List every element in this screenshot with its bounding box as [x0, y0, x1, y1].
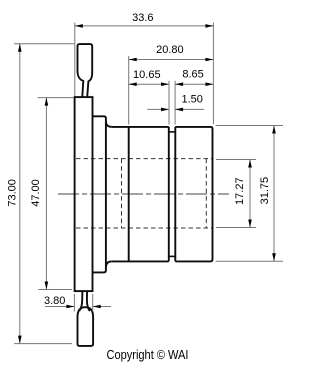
dim 3.80 right leader — [93, 306, 111, 308]
dim 10.65 right arrow — [161, 82, 169, 86]
dim 1.50 left leader — [147, 108, 169, 110]
dim 3.80 left leader — [45, 306, 74, 308]
svg-text:33.6: 33.6 — [132, 12, 153, 24]
flange outline — [93, 116, 106, 272]
extension line 17.27 bottom — [216, 227, 256, 229]
dim 1.50 left arrow — [161, 108, 169, 112]
groove left wall — [168, 127, 170, 262]
svg-text:47.00: 47.00 — [30, 179, 42, 207]
bottom blade paddle — [78, 307, 94, 346]
svg-text:8.65: 8.65 — [182, 69, 203, 81]
extension line 3.80 left — [73, 294, 75, 312]
hidden bore line top — [76, 158, 212, 160]
extension line groove left — [168, 81, 170, 125]
svg-text:Copyright © WAI: Copyright © WAI — [107, 347, 189, 362]
hidden bore line bottom — [76, 227, 212, 229]
dim 8.65 left arrow — [175, 82, 183, 86]
dim 20.80 left arrow — [129, 58, 137, 62]
hidden bore left vertical — [121, 159, 123, 228]
dim 73.00 top arrow — [18, 44, 22, 52]
svg-text:20.80: 20.80 — [156, 44, 184, 56]
dim 47.00 line — [45, 98, 47, 290]
hidden bore right vertical — [205, 159, 207, 228]
dim 73.00 bottom arrow — [18, 336, 22, 344]
dim 33.6 right arrow — [205, 24, 213, 28]
dim 8.65 line — [175, 83, 213, 85]
extension line body right — [212, 23, 214, 125]
dim 47.00 top arrow — [45, 98, 49, 106]
dim 33.6 left arrow — [75, 24, 83, 28]
top blade paddle — [78, 44, 93, 97]
dim 1.50 right leader — [175, 108, 204, 110]
dim 1.50 right arrow — [175, 108, 183, 112]
svg-text:3.80: 3.80 — [44, 295, 65, 307]
groove root bottom — [169, 255, 176, 257]
extension line at ring joint — [128, 56, 130, 125]
dim 10.65 line — [129, 83, 169, 85]
terminal bar body — [75, 97, 93, 291]
bottom neck right edge — [87, 291, 90, 311]
dim 31.75 top arrow — [272, 126, 276, 134]
bottom neck left edge — [79, 291, 82, 311]
dim 3.80 left arrow — [66, 305, 74, 309]
ring joint line — [128, 127, 130, 262]
dim 31.75 line — [273, 126, 275, 262]
extension line left of bar top — [74, 23, 76, 97]
extension line 3.80 right — [92, 294, 94, 312]
dim 17.27 line — [249, 160, 251, 228]
center line — [58, 193, 229, 195]
svg-text:10.65: 10.65 — [133, 69, 161, 81]
dim 17.27 top arrow — [248, 160, 252, 168]
svg-text:73.00: 73.00 — [7, 179, 19, 207]
dim 33.6 line — [75, 25, 214, 27]
extension line groove right — [174, 81, 176, 125]
svg-text:31.75: 31.75 — [259, 177, 271, 205]
groove root top — [169, 131, 176, 133]
extension line 31.75 bottom — [216, 260, 283, 262]
dim 10.65 left arrow — [129, 82, 137, 86]
right cylinder outline — [175, 127, 212, 262]
svg-text:17.27: 17.27 — [234, 177, 246, 205]
cylinder bottom edge left of groove — [112, 260, 169, 262]
dim 20.80 right arrow — [205, 58, 213, 62]
dim 3.80 right arrow — [93, 305, 101, 309]
dim 17.27 bottom arrow — [248, 220, 252, 228]
flange top fillet — [106, 121, 112, 127]
flange bottom fillet — [106, 261, 112, 267]
dim 8.65 right arrow — [205, 82, 213, 86]
dim 47.00 bottom arrow — [45, 282, 49, 290]
dim 20.80 line — [129, 59, 214, 61]
extension line 47.00 bottom — [38, 289, 72, 291]
extension line 31.75 top — [216, 125, 283, 127]
extension line 73.00 bottom — [14, 343, 72, 345]
svg-text:1.50: 1.50 — [181, 93, 202, 105]
extension line 73.00 top — [14, 43, 74, 45]
cylinder top edge left of groove — [112, 126, 169, 128]
dim 73.00 line — [19, 44, 21, 344]
groove right wall — [174, 127, 176, 262]
extension line 47.00 top — [38, 97, 74, 99]
dim 31.75 bottom arrow — [272, 253, 276, 261]
extension line 17.27 top — [216, 159, 256, 161]
